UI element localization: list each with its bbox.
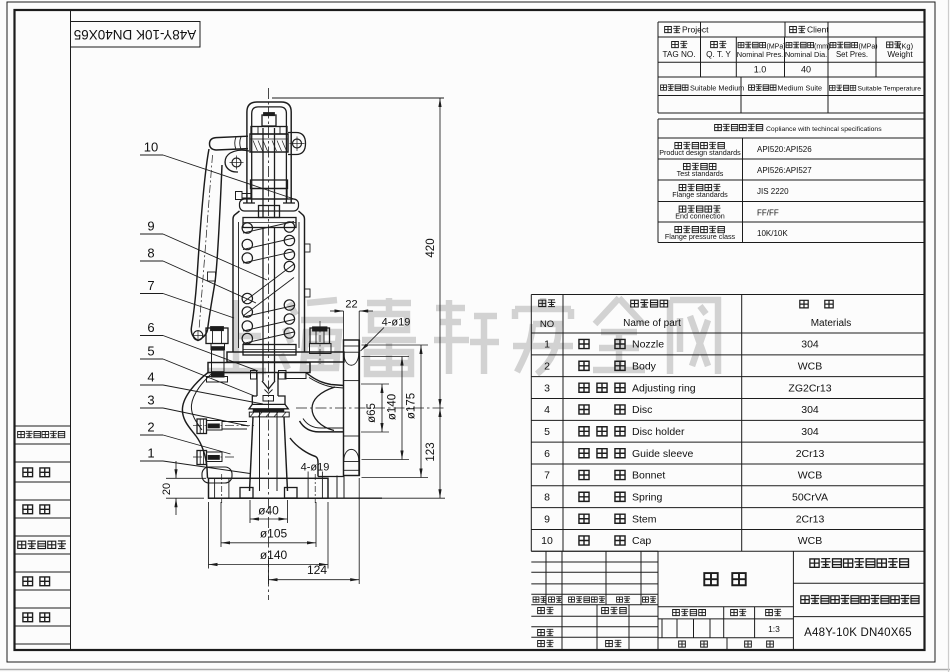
spring top plate (243, 218, 296, 228)
svg-text:22: 22 (345, 299, 357, 311)
svg-text:Set Pres.: Set Pres. (836, 50, 868, 59)
lever fork plate + pivot pin (288, 133, 306, 155)
outlet upper wall (306, 373, 344, 386)
dim o140 inlet (209, 564, 329, 566)
svg-text:Guide sleeve: Guide sleeve (632, 448, 693, 460)
svg-text:WCB: WCB (798, 535, 823, 547)
svg-text:5: 5 (147, 344, 154, 359)
outlet lower wall (300, 421, 345, 432)
dim 123 (439, 408, 441, 498)
svg-text:2Cr13: 2Cr13 (796, 448, 825, 460)
svg-text:Project: Project (682, 25, 709, 35)
body lower-left boss (202, 467, 232, 483)
dim 20 (166, 477, 206, 479)
nozzle feet (240, 488, 253, 499)
svg-text:ø140: ø140 (387, 394, 399, 420)
svg-text:Disc holder: Disc holder (632, 426, 685, 438)
svg-text:TAG NO.: TAG NO. (662, 50, 695, 59)
svg-text:Suitable Medium: Suitable Medium (690, 84, 744, 93)
nozzle (part 1) (250, 417, 254, 491)
dim o40 (250, 518, 288, 520)
top-right project table (658, 21, 925, 23)
technical specification table (658, 118, 925, 120)
cap C (part 10) : yoke bracket (247, 102, 291, 203)
svg-text:A48Y-10K DN40X65: A48Y-10K DN40X65 (804, 627, 912, 639)
inlet flange bolt holes (307, 478, 309, 498)
svg-text:Product design standards: Product design standards (659, 148, 741, 157)
adjusting ring screw (197, 419, 207, 434)
svg-text:1: 1 (544, 339, 550, 351)
svg-text:Client: Client (807, 25, 829, 35)
dim 124 (269, 579, 360, 581)
svg-text:API526:API527: API526:API527 (757, 166, 812, 175)
svg-text:ø105: ø105 (260, 527, 288, 541)
svg-text:Stem: Stem (632, 513, 657, 525)
svg-text:8: 8 (147, 246, 154, 261)
body drain plug (197, 451, 207, 465)
dim 420 (439, 98, 441, 408)
parts list table (531, 294, 924, 296)
svg-text:10: 10 (541, 535, 553, 547)
svg-text:WCB: WCB (798, 470, 823, 482)
dim o105 (221, 542, 316, 544)
svg-text:Flange pressure class: Flange pressure class (665, 232, 736, 241)
svg-text:9: 9 (544, 513, 550, 525)
svg-text:4-ø19: 4-ø19 (382, 317, 411, 329)
svg-text:Q. T. Y: Q. T. Y (706, 50, 731, 59)
svg-text:6: 6 (147, 320, 154, 335)
svg-text:2Cr13: 2Cr13 (796, 513, 825, 525)
disc holder (part 5) (252, 396, 285, 404)
svg-text:Nominal Dia.: Nominal Dia. (785, 50, 827, 59)
svg-text:Copliance with techincal speci: Copliance with techincal specifications (766, 126, 882, 133)
bonnet flange (227, 352, 344, 362)
lever lower pivot (232, 158, 241, 167)
body left outline (182, 373, 208, 479)
page edge shadow bottom (0, 669, 950, 671)
svg-text:Nominal Pres.: Nominal Pres. (737, 50, 783, 59)
svg-text:NO: NO (540, 319, 554, 330)
svg-text:ø40: ø40 (258, 504, 279, 518)
svg-text:JIS 2220: JIS 2220 (757, 187, 789, 196)
svg-text:10: 10 (144, 140, 158, 155)
svg-text:Test standards: Test standards (677, 169, 724, 178)
svg-text:End connection: End connection (675, 212, 725, 221)
block hatches (253, 141, 258, 152)
lever arm (191, 149, 222, 341)
svg-text:420: 420 (425, 238, 437, 257)
svg-text:304: 304 (801, 339, 819, 351)
svg-text:5: 5 (544, 426, 550, 438)
outlet flange plate (344, 340, 360, 476)
guide sleeve (part 6) (251, 371, 257, 380)
svg-text:Body: Body (632, 361, 657, 373)
svg-text:2: 2 (544, 361, 550, 373)
svg-text:7: 7 (147, 278, 154, 293)
svg-text:API520:API526: API520:API526 (757, 145, 812, 154)
cap lock screw (236, 192, 243, 200)
dim 22 (343, 311, 345, 341)
svg-text:4: 4 (544, 404, 550, 416)
bonnet neck (251, 189, 287, 200)
svg-text:50CrVA: 50CrVA (792, 492, 828, 504)
svg-text:304: 304 (801, 404, 819, 416)
lever grip (left handle) (210, 136, 249, 150)
svg-text:304: 304 (801, 426, 819, 438)
svg-text:Bonnet: Bonnet (632, 470, 665, 482)
body right lower outline (290, 438, 318, 477)
svg-text:Suitable Temperature: Suitable Temperature (858, 86, 922, 93)
spring bottom plate (243, 345, 296, 356)
svg-text:WCB: WCB (798, 361, 823, 373)
bonnet dome (part 7 top) (240, 199, 299, 211)
bonnet walls (233, 211, 240, 352)
disc (part 4) (263, 396, 274, 402)
adjusting screw lock plate (251, 180, 288, 189)
svg-text:4: 4 (147, 370, 154, 385)
svg-text:Spring: Spring (632, 492, 663, 504)
svg-text:3: 3 (544, 382, 550, 394)
svg-text:10K/10K: 10K/10K (757, 229, 788, 238)
svg-text:1.0: 1.0 (754, 65, 767, 75)
base line under flanges (209, 497, 383, 499)
svg-text:7: 7 (544, 470, 550, 482)
svg-text:Weight: Weight (887, 50, 913, 59)
side tabs on bonnet wall (305, 244, 311, 252)
svg-text:ø65: ø65 (366, 403, 378, 423)
dim o175 (362, 344, 429, 346)
svg-text:ø175: ø175 (406, 393, 418, 419)
svg-text:20: 20 (161, 483, 173, 495)
svg-text:Flange standards: Flange standards (672, 190, 728, 199)
screw bushing (259, 206, 280, 218)
svg-text:Name of part: Name of part (623, 318, 681, 329)
spring coils (part 8) (242, 223, 252, 233)
outlet internal arc (312, 387, 335, 431)
svg-text:2: 2 (147, 420, 154, 435)
stem top nut (262, 115, 276, 126)
stem rod (part 9) (262, 128, 264, 217)
top-left drawing number box (71, 22, 201, 48)
adjusting ring (part 3) (249, 412, 289, 417)
lever housing block (250, 134, 288, 152)
outlet centerline (296, 407, 445, 409)
title block (531, 550, 658, 552)
outlet wall inner lines (309, 378, 344, 389)
svg-text:Cap: Cap (632, 535, 651, 547)
svg-text:Adjusting ring: Adjusting ring (632, 382, 696, 394)
dim o65 (361, 383, 389, 385)
centerline (valve axis) (268, 88, 270, 600)
svg-text:4-ø19: 4-ø19 (301, 462, 330, 474)
svg-text:Medium Suite: Medium Suite (778, 84, 823, 93)
svg-text:FF/FF: FF/FF (757, 209, 779, 218)
svg-text:Nozzle: Nozzle (632, 339, 664, 351)
body top flange (208, 363, 310, 373)
svg-text:123: 123 (425, 442, 437, 461)
svg-text:8: 8 (544, 492, 550, 504)
svg-text:9: 9 (147, 219, 154, 234)
outlet flange support legs (336, 476, 338, 499)
release nut plate (251, 127, 287, 135)
svg-text:ZG2Cr13: ZG2Cr13 (788, 382, 831, 394)
svg-text:1: 1 (147, 446, 154, 461)
dim o140 outlet (362, 356, 410, 358)
svg-text:Materials: Materials (811, 318, 852, 329)
svg-text:3: 3 (147, 393, 154, 408)
inlet flange (body, part 2) (209, 478, 329, 498)
bonnet flange stud right (310, 328, 330, 344)
svg-text:1:3: 1:3 (768, 624, 780, 634)
svg-text:40: 40 (801, 65, 811, 75)
extension line top (420 dim) (272, 97, 444, 99)
seat sealing face (253, 409, 284, 412)
svg-text:6: 6 (544, 448, 550, 460)
svg-text:Disc: Disc (632, 404, 652, 416)
svg-text:ø140: ø140 (260, 548, 288, 562)
sidebar divider (70, 10, 72, 650)
svg-text:A48Y-10K DN40X65: A48Y-10K DN40X65 (74, 27, 197, 42)
bonnet flange stud left (206, 328, 228, 344)
